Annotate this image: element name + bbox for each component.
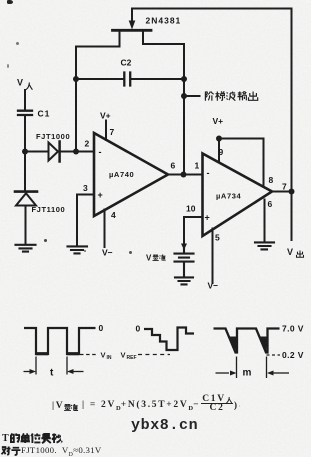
waveform 3 dimension arrows m bbox=[216, 371, 290, 376]
svg-text:10: 10 bbox=[186, 204, 196, 214]
svg-text:V−: V− bbox=[208, 281, 219, 291]
wire left branch down to diode junction bbox=[75, 47, 77, 152]
wire top feedback rail bbox=[132, 8, 292, 10]
label Vref (V基准) battery bbox=[146, 254, 166, 263]
wire gate lead of Q1 bbox=[131, 9, 133, 24]
diode D1 FJT1000 triangle bbox=[49, 143, 59, 161]
svg-text:7: 7 bbox=[110, 127, 115, 137]
svg-text:0.2 V: 0.2 V bbox=[282, 350, 304, 360]
node U1 output junction bbox=[181, 172, 187, 178]
transistor Q1 right (source) lead bbox=[143, 31, 184, 45]
node C2 right junction bbox=[181, 76, 187, 82]
svg-text:µA740: µA740 bbox=[109, 170, 134, 179]
waveform 2 Vref label bbox=[121, 351, 137, 362]
svg-text:5: 5 bbox=[215, 233, 220, 243]
waveform 1 Vin dashed level bbox=[80, 354, 96, 356]
wire pin6 to ground bbox=[264, 200, 266, 243]
svg-text:9: 9 bbox=[219, 147, 224, 157]
ground G2 bbox=[68, 246, 88, 253]
battery B1 arrow bbox=[181, 244, 187, 251]
svg-text:+: + bbox=[205, 213, 210, 223]
waveform 3 0.2V dashed level bbox=[267, 354, 281, 356]
bottom note line 1: T is in seconds bbox=[2, 433, 63, 444]
svg-text:REF: REF bbox=[127, 355, 137, 361]
wire right feedback rail down to Vout bbox=[291, 9, 293, 241]
svg-text:V+: V+ bbox=[213, 116, 224, 126]
wire staircase output tap bbox=[184, 95, 200, 97]
svg-text:V: V bbox=[101, 351, 106, 360]
transistor Q1 left (drain) lead bbox=[76, 31, 120, 47]
svg-text:V+: V+ bbox=[100, 111, 111, 121]
wire pin7 V+ supply U1 bbox=[105, 121, 107, 141]
op-amp U2 uA734 triangle bbox=[203, 154, 273, 237]
diode D2 FJT1100 cathode bar bbox=[15, 190, 37, 193]
stray scan mark top left bbox=[7, 0, 13, 4]
svg-text:2: 2 bbox=[85, 139, 90, 149]
svg-text:C2: C2 bbox=[121, 58, 132, 68]
battery B1 Vref plates bbox=[175, 249, 194, 277]
ground G3 bbox=[175, 277, 193, 284]
waveform 1 pulse bottom ink bleed bbox=[36, 352, 79, 355]
svg-text:-: - bbox=[207, 168, 210, 178]
node staircase output tap bbox=[181, 93, 187, 99]
svg-text:C1: C1 bbox=[38, 109, 51, 119]
wire V+ node to pin8 bbox=[219, 139, 264, 188]
wire Vin input bbox=[24, 90, 26, 110]
ground G4 bbox=[255, 242, 274, 249]
label staircase output (阶梯波输出) bbox=[205, 92, 257, 101]
svg-text:FJT1000: FJT1000 bbox=[36, 132, 70, 141]
svg-text:-: - bbox=[99, 147, 102, 157]
waveform 2 Vref dashed level bbox=[138, 354, 170, 356]
svg-text:8: 8 bbox=[269, 175, 274, 185]
svg-text:3: 3 bbox=[83, 183, 88, 193]
wire pin5 to V- bbox=[212, 229, 214, 284]
waveform 3 tooth ink fill bbox=[230, 337, 268, 353]
label Vin (V入) bbox=[17, 78, 32, 90]
ground G1 bbox=[16, 245, 36, 252]
svg-text:V: V bbox=[146, 254, 152, 263]
svg-text:m: m bbox=[243, 368, 252, 379]
svg-text:6: 6 bbox=[171, 161, 176, 171]
svg-text:V−: V− bbox=[102, 248, 113, 258]
wire C1 to node A bbox=[24, 116, 26, 152]
bottom note line 2: for FJT1000 VD=0.31V bbox=[1, 445, 102, 457]
svg-text:6: 6 bbox=[268, 199, 273, 209]
svg-text:FJT1100: FJT1100 bbox=[32, 205, 66, 214]
waveform 1 ticks bbox=[36, 357, 67, 375]
svg-text:V: V bbox=[17, 78, 23, 88]
node B diode junction bbox=[73, 149, 79, 155]
transistor Q1 2N4381 channel bar bbox=[113, 29, 152, 32]
waveform 3 ticks bbox=[237, 357, 267, 379]
diode D2 FJT1100 triangle bbox=[16, 193, 36, 205]
node V+ U2 bbox=[216, 136, 222, 142]
wire pin4 V- supply U1 bbox=[104, 210, 106, 248]
wire pin3 to ground bbox=[77, 195, 94, 247]
capacitor C2 wires bbox=[76, 78, 184, 80]
capacitor C2 plates bbox=[124, 73, 130, 86]
op-amp U1 uA740 triangle bbox=[94, 133, 168, 216]
wire D1 to pin2 bbox=[61, 151, 95, 153]
svg-text:0: 0 bbox=[136, 324, 141, 334]
watermark ybx8.cn bbox=[131, 417, 198, 434]
svg-text:t: t bbox=[50, 368, 54, 379]
waveform 2 staircase bbox=[144, 328, 194, 351]
waveform 3 output sawtooth bbox=[214, 329, 280, 353]
wire D2 to ground bbox=[25, 206, 27, 245]
formula Vref equation bbox=[52, 395, 242, 412]
label Vout (V出) bbox=[287, 247, 304, 257]
wire pin9 to V+ node bbox=[218, 139, 220, 163]
capacitor C1 plates bbox=[18, 111, 32, 115]
diode D1 FJT1000 cathode bar bbox=[58, 142, 61, 162]
svg-text:V: V bbox=[121, 351, 126, 360]
wire node A to diode D2 bbox=[24, 152, 26, 192]
waveform 1 Vin label bbox=[101, 351, 112, 362]
svg-text:4: 4 bbox=[111, 210, 116, 220]
svg-text:7.0 V: 7.0 V bbox=[282, 324, 304, 334]
svg-text:1: 1 bbox=[195, 161, 200, 171]
svg-text:7: 7 bbox=[282, 182, 287, 192]
wire U2 output pin7 bbox=[272, 191, 292, 193]
transistor Q1 2N4381 gate arrow bbox=[129, 21, 136, 30]
wire right branch down to opamp output junction bbox=[183, 44, 185, 175]
wire U1 output to U2 pin1 bbox=[168, 174, 203, 176]
svg-text:0: 0 bbox=[99, 323, 104, 333]
stray speck marks bbox=[16, 42, 19, 45]
node output junction bbox=[289, 189, 295, 195]
svg-text:2N4381: 2N4381 bbox=[146, 16, 182, 26]
svg-text:IN: IN bbox=[107, 355, 112, 361]
svg-text:+: + bbox=[98, 190, 103, 200]
wire pin10 to battery bbox=[184, 217, 203, 244]
wire node A to diode D1 bbox=[25, 151, 49, 153]
waveform 1 input square wave bbox=[24, 328, 96, 354]
node A input junction bbox=[22, 149, 28, 155]
svg-text:V: V bbox=[287, 247, 293, 257]
waveform 1 dimension arrows t bbox=[24, 369, 84, 374]
node C2 left junction bbox=[73, 76, 79, 82]
svg-text:µA734: µA734 bbox=[216, 192, 241, 201]
